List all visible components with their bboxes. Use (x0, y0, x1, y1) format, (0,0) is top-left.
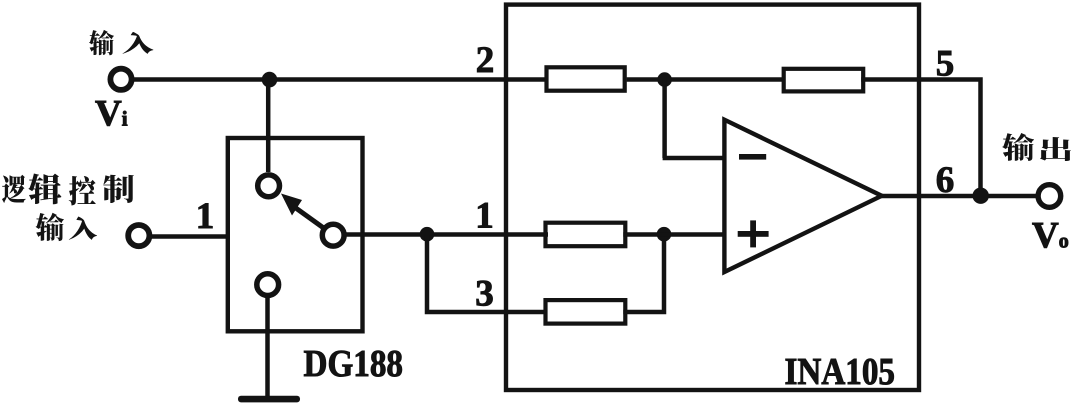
ground (238, 396, 300, 403)
resistor R4 (pin3) (546, 300, 626, 324)
svg-text:1: 1 (196, 196, 215, 237)
svg-text:DG188: DG188 (304, 343, 404, 385)
wire junction down toward inverting input (662, 80, 667, 159)
resistor R3 (pin1 noninverting) (546, 223, 626, 247)
label shu-ru line2 char 1 (36, 213, 64, 241)
resistor R1 (pin2 input) (547, 67, 625, 90)
wire R3 to noninverting input (623, 232, 726, 237)
label shu-chu (output) char 1 (1002, 133, 1034, 161)
wire bottom contact to ground (265, 295, 270, 398)
wire junction down to pin3 loop (427, 235, 548, 313)
label shu-chu (output) char 2 (1040, 137, 1071, 161)
node junction R1/R2/inverting (657, 72, 672, 87)
wire Vi to INA105 pin2 (130, 77, 548, 82)
svg-text:1: 1 (475, 196, 494, 237)
label shu-ru (input) char 1 (89, 30, 114, 55)
node junction R3/R4/noninverting (657, 227, 672, 242)
node junction switch/R3/R4 (420, 227, 435, 242)
output terminal Vo (1038, 185, 1061, 208)
wire to inverting input (663, 156, 726, 161)
INA105 box (506, 5, 919, 390)
DG188 switch box (228, 138, 363, 331)
svg-text:3: 3 (475, 274, 494, 315)
op-amp plus sign horizontal bar (738, 231, 769, 237)
node junction output/feedback (973, 188, 989, 204)
svg-text:INA105: INA105 (785, 351, 896, 393)
switch arm arrowhead (281, 194, 302, 216)
label luoji-kongzhi char 3 (69, 176, 96, 206)
label luoji-kongzhi char 4 (103, 175, 134, 203)
wire R1 to R2 (627, 77, 784, 82)
op-amp plus sign vertical bar (750, 220, 756, 247)
wire R2 to pin5 and down to output (861, 80, 980, 197)
switch arm wiper (293, 206, 325, 229)
label shu-ru line2 char 2 (69, 216, 97, 239)
switch contact top (NC) (258, 175, 280, 197)
wire junction down to switch common (266, 80, 271, 173)
switch contact bottom (257, 274, 279, 296)
svg-text:2: 2 (476, 40, 495, 81)
logic control input terminal (128, 225, 149, 246)
wire R4 up to node B (623, 235, 664, 313)
label shu-ru (input) char 2 (122, 32, 153, 54)
wire common contact to junction (343, 232, 548, 237)
label luoji-kongzhi char 1 (2, 175, 26, 203)
resistor R2 (feedback) (784, 69, 864, 92)
node junction input/switch (262, 72, 278, 88)
switch contact common (right) (322, 224, 344, 246)
label luoji-kongzhi char 2 (28, 173, 61, 204)
wire logic input to DG188 (148, 234, 229, 239)
wire op-amp output to Vo (879, 194, 1040, 199)
input terminal Vi (110, 69, 131, 90)
op-amp minus sign (739, 154, 766, 160)
op-amp U1 triangle (724, 120, 881, 272)
